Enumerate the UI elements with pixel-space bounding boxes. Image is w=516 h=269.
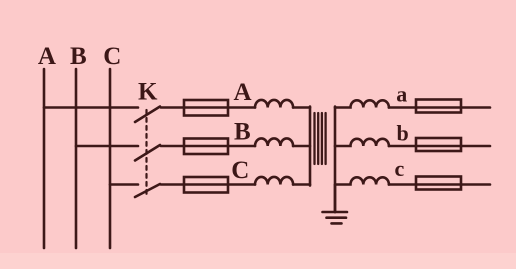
fuse FU5 body bbox=[416, 138, 461, 151]
wire coil a to fuse and out bbox=[389, 106, 490, 109]
switch K linkage dashed bbox=[145, 110, 147, 196]
bottom page strip bbox=[0, 253, 516, 269]
transformer core line 3 bbox=[321, 113, 323, 164]
fuse FU6 body bbox=[416, 177, 461, 190]
ground bar 3 bbox=[332, 222, 342, 225]
primary winding B bbox=[255, 138, 293, 146]
transformer core line 2 bbox=[317, 113, 319, 164]
svg-text:C: C bbox=[231, 157, 249, 184]
wire switch to coil row B bbox=[161, 145, 255, 148]
ground bar 1 bbox=[323, 211, 348, 214]
fuse FU3 body bbox=[184, 177, 228, 193]
wire row A to switch bbox=[44, 106, 138, 109]
svg-text:A: A bbox=[233, 79, 251, 106]
fuse FU2 body bbox=[184, 139, 228, 155]
svg-text:c: c bbox=[395, 156, 405, 181]
transformer core line 4 bbox=[324, 113, 326, 164]
secondary winding c bbox=[335, 177, 389, 184]
wire coil B to primary bus bbox=[293, 145, 310, 148]
primary bus bbox=[309, 107, 312, 186]
transformer core line 1 bbox=[313, 113, 315, 164]
switch K pole 2 blade bbox=[135, 145, 160, 161]
wire coil c to fuse and out bbox=[389, 183, 490, 186]
ground lead bbox=[334, 185, 337, 212]
primary winding C bbox=[255, 177, 293, 185]
phase line B bbox=[75, 69, 78, 248]
wire row B to switch bbox=[76, 145, 138, 148]
secondary winding b bbox=[335, 139, 389, 146]
svg-text:A: A bbox=[38, 43, 56, 70]
switch K pole 3 blade bbox=[135, 184, 160, 197]
wire coil C to primary bus bbox=[293, 183, 310, 186]
svg-text:C: C bbox=[103, 43, 121, 70]
wire row C to switch bbox=[110, 183, 138, 186]
secondary winding a bbox=[335, 100, 389, 107]
svg-text:b: b bbox=[396, 121, 408, 146]
wire switch to coil row A bbox=[161, 106, 255, 109]
svg-text:K: K bbox=[138, 79, 158, 106]
secondary bus bbox=[334, 107, 337, 213]
wire coil b to fuse and out bbox=[389, 145, 490, 148]
wire coil A to primary bus bbox=[293, 106, 310, 109]
phase line A bbox=[43, 69, 46, 248]
fuse FU4 body bbox=[416, 100, 461, 113]
fuse FU1 body bbox=[184, 100, 228, 116]
svg-text:B: B bbox=[234, 119, 251, 146]
wire switch to coil row C bbox=[161, 183, 255, 186]
switch K pole 1 blade bbox=[135, 107, 160, 123]
ground bar 2 bbox=[327, 216, 347, 219]
svg-text:a: a bbox=[396, 82, 407, 107]
phase line C bbox=[109, 69, 112, 248]
primary winding A bbox=[255, 100, 293, 108]
svg-text:B: B bbox=[70, 43, 87, 70]
